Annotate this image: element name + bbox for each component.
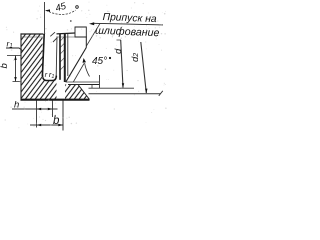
extension E2 [52, 101, 54, 118]
scan noise speckle [5, 2, 167, 129]
groove right wall blank thick line [59, 34, 61, 80]
groove top right corner chamfer blank [50, 32, 55, 36]
part top edge right of groove [57, 32, 76, 35]
groove left wall [42, 34, 44, 76]
svg-text:b: b [53, 115, 60, 127]
leader shelf under text [93, 23, 163, 25]
h dim leader and line [12, 108, 58, 110]
wall outer face thin line [67, 34, 69, 76]
shelf line thin upper [66, 81, 100, 83]
hatch region wall core sparse [60, 37, 64, 71]
b dim bottom extension [13, 81, 22, 83]
b dim top extension [7, 55, 21, 57]
part outline left edge [20, 33, 22, 99]
hatch region under groove [43, 80, 57, 100]
d dimension line [121, 40, 123, 88]
finished top surface thin line left [21, 36, 43, 38]
svg-text:b: b [0, 63, 10, 68]
allowance strip rectangle top right [75, 27, 86, 37]
right edge [85, 37, 87, 48]
groove right wall thin finished line [55, 37, 58, 77]
r1 underline leader [6, 48, 23, 51]
d2 surface line [89, 93, 161, 95]
wall outer face thick line [64, 34, 66, 82]
extension E3 [62, 101, 64, 131]
chamfer 45 blank thick [66, 48, 87, 83]
lower right slant edge [78, 85, 90, 100]
finished top surface thin line right [57, 36, 75, 38]
svg-text:Припуск на: Припуск на [102, 12, 157, 25]
hatch region left block [21, 34, 43, 100]
chamfer 45 finished thin [73, 64, 84, 83]
svg-text:45°: 45° [92, 56, 107, 67]
d2 dimension line [141, 42, 147, 93]
degree sign top 45 [76, 6, 79, 9]
d line top tick [117, 39, 122, 41]
extension line up from groove wall [44, 2, 46, 34]
groove bottom with corner radii [42, 75, 56, 81]
groove top right corner chamfer finished [53, 38, 57, 42]
part top edge left of groove [21, 33, 44, 35]
d star dot [109, 57, 111, 59]
shelf line thick lower [68, 84, 100, 86]
b dim vertical line [15, 56, 17, 82]
d surface line [89, 87, 135, 89]
hatch region bottom right [65, 85, 90, 100]
d edge connector [91, 85, 93, 89]
b bottom dimension line [30, 124, 64, 126]
leader arrow 45 right [85, 63, 90, 77]
leader arrow 45 top [46, 10, 76, 14]
shelf stub vertical [99, 75, 101, 88]
svg-text:d: d [113, 48, 124, 54]
ink blot artifact [70, 20, 72, 22]
part bottom edge [21, 99, 90, 101]
leader diagonal [86, 24, 100, 47]
extension E1 [36, 101, 38, 128]
d2 line end slash [159, 91, 163, 96]
